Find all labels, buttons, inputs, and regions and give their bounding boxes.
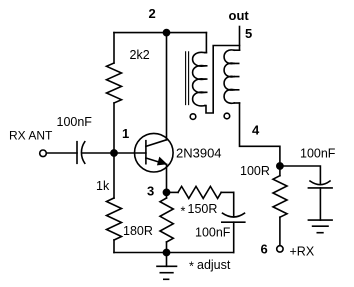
capacitor 100nF right straight plate (308, 187, 332, 189)
svg-text:RX ANT: RX ANT (9, 129, 53, 143)
svg-text:100R: 100R (240, 164, 270, 178)
svg-text:2k2: 2k2 (130, 48, 150, 62)
svg-text:5: 5 (245, 26, 252, 41)
wire secondary to node 4 (240, 103, 280, 166)
svg-text:100nF: 100nF (57, 115, 93, 129)
svg-text:6: 6 (261, 242, 268, 257)
wire to right capacitor (280, 166, 321, 184)
terminal RX ANT (40, 150, 47, 157)
svg-text:150R: 150R (188, 202, 218, 216)
transformer T1 phase terminal right (224, 113, 230, 119)
svg-text:out: out (229, 8, 250, 23)
wire collector (166, 33, 168, 140)
wire emitter (166, 164, 168, 192)
resistor 180R emitter (166, 192, 168, 198)
svg-text:1: 1 (122, 126, 129, 141)
ground right (308, 219, 332, 221)
capacitor 100nF mid straight plate (222, 221, 245, 223)
capacitor 100nF mid curved plate (223, 213, 245, 217)
svg-text:adjust: adjust (197, 258, 231, 272)
resistor 1k (107, 198, 122, 240)
wire left vertical upper (113, 33, 115, 63)
svg-text:180R: 180R (123, 224, 153, 238)
wire node3 to 150R (167, 191, 179, 193)
capacitor C-in 100nF (76, 142, 78, 164)
transformer T1 primary winding (193, 52, 205, 66)
transformer T1 phase terminal left (190, 114, 196, 120)
svg-text:1k: 1k (96, 179, 110, 193)
svg-text:100nF: 100nF (195, 226, 231, 240)
resistor 150R (178, 186, 221, 198)
ground (166, 253, 168, 267)
wire down to cap (233, 192, 235, 216)
node junction dot node 2 (163, 29, 169, 35)
node junction dot ground (163, 249, 169, 255)
resistor 100R (279, 166, 281, 176)
svg-text:*: * (189, 260, 194, 274)
capacitor 100nF right curved plate (310, 181, 330, 185)
svg-text:3: 3 (147, 184, 154, 199)
wire capacitor to base (82, 152, 146, 154)
svg-text:2: 2 (149, 6, 156, 21)
resistor 2k2 (107, 63, 122, 103)
node junction dot node 4 branch (277, 163, 283, 169)
node junction dot node 3 (163, 189, 169, 195)
svg-text:4: 4 (252, 123, 260, 138)
transformer T1 primary lead bottom (205, 46, 240, 114)
transformer T1 secondary winding (234, 49, 239, 51)
wire cap to ground (319, 188, 321, 220)
wire left vertical middle (113, 103, 115, 198)
wire bottom rail (114, 252, 234, 254)
terminal +RX node 6 (277, 246, 283, 252)
svg-text:*: * (181, 205, 186, 219)
wire 150R to cap (221, 191, 234, 193)
svg-text:+RX: +RX (290, 245, 315, 259)
wire left vertical lower (113, 240, 115, 253)
transformer T1 primary lead top (205, 33, 207, 53)
svg-text:2N3904: 2N3904 (176, 146, 222, 161)
wire cap to rail (233, 222, 235, 252)
node junction dot node 1 (111, 150, 117, 156)
wire antenna to capacitor (46, 152, 77, 154)
transformer T1 core (185, 52, 187, 105)
wire out node 5 (239, 27, 241, 51)
svg-text:100nF: 100nF (300, 147, 336, 161)
wire top rail node 2 (114, 32, 206, 34)
transistor Q1 2N3904 (135, 133, 174, 172)
